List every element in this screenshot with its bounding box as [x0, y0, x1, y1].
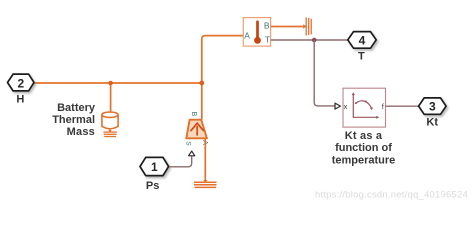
heat flow rate source block (trapezoid with arrow) — [186, 120, 207, 139]
heat source arrow icon — [191, 123, 203, 135]
signal wire: lookup table output to port 3 — [386, 105, 419, 107]
ground: thermal reference right of sensor B (rotated bars) — [306, 17, 311, 35]
input arrow into heat source S — [189, 151, 195, 156]
wire: H port to junction 2 (horizontal thermal wire) — [34, 82, 202, 84]
svg-text:2: 2 — [17, 76, 24, 90]
ground: thermal reference under battery thermal mass — [103, 132, 117, 136]
svg-text:B: B — [190, 112, 197, 117]
svg-text:Ps: Ps — [146, 180, 159, 192]
svg-text:4: 4 — [359, 33, 366, 47]
svg-text:B: B — [264, 21, 270, 31]
svg-text:H: H — [16, 94, 24, 106]
ground arrowhead under heat source — [203, 180, 207, 182]
port 1 hexagon — [140, 157, 169, 175]
ground arrowhead under thermal mass — [108, 130, 112, 132]
thermal mass element (Battery Thermal Mass cylinder) — [102, 112, 118, 129]
svg-text:Mass: Mass — [67, 126, 95, 138]
arrowhead at thermal reference — [303, 24, 306, 29]
port 3 hexagon — [419, 98, 447, 114]
wire: junction 1 down to thermal mass — [110, 83, 112, 113]
svg-text:S: S — [185, 141, 192, 146]
thermometer icon — [256, 22, 259, 38]
svg-text:Kt as a: Kt as a — [345, 130, 383, 142]
signal wire: Ps port to heat source S input — [169, 156, 192, 167]
ground: thermal reference under heat source — [194, 182, 217, 187]
wire: vertical trunk from sensor A corner down to heat source B — [202, 36, 244, 120]
wire: thermal mass to ground stub — [109, 130, 111, 133]
port 4 hexagon — [348, 32, 376, 49]
wire: heat source A to ground — [204, 138, 206, 182]
svg-text:Battery: Battery — [57, 102, 96, 114]
temperature sensor block U1 — [243, 18, 270, 46]
svg-text:T: T — [265, 34, 270, 44]
svg-text:T: T — [358, 51, 365, 63]
wire: sensor B to thermal reference — [271, 26, 306, 28]
svg-text:x: x — [344, 102, 348, 111]
svg-text:Kt: Kt — [426, 117, 438, 129]
svg-text:function of: function of — [335, 142, 392, 154]
node: junction 2 — [199, 81, 204, 86]
svg-text:3: 3 — [429, 100, 436, 114]
lookup table block: Kt as a function of temperature — [343, 88, 386, 127]
svg-text:Thermal: Thermal — [52, 114, 95, 126]
signal wire: sensor T to port 4 — [271, 39, 348, 41]
svg-text:temperature: temperature — [332, 155, 396, 167]
svg-text:https://blog.csdn.net/qq_40196: https://blog.csdn.net/qq_40196524 — [315, 190, 468, 201]
svg-text:1: 1 — [151, 160, 158, 174]
input arrow into lookup table — [335, 103, 340, 109]
node: junction on T signal — [312, 38, 317, 43]
node: junction 1 — [108, 81, 113, 86]
signal wire: junction down to lookup table input — [314, 40, 335, 106]
lookup table curve icon — [353, 94, 377, 117]
port 2 hexagon — [8, 74, 35, 91]
svg-text:A: A — [244, 31, 250, 41]
